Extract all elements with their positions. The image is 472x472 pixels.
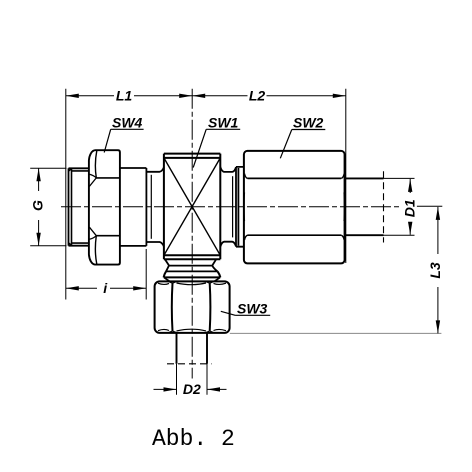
G extension lines	[30, 168, 66, 245]
L3 top extension line	[417, 205, 442, 207]
svg-text:Abb. 2: Abb. 2	[152, 426, 235, 452]
D2 extension lines	[177, 364, 208, 395]
horizontal center line (stud/tube axis)	[61, 206, 401, 208]
dimension L3	[436, 207, 440, 334]
label SW1 leader	[193, 129, 240, 167]
svg-text:SW4: SW4	[112, 114, 143, 130]
vertical center line (fitting axis)	[191, 89, 193, 379]
right neck valley and cone ridge	[220, 167, 244, 247]
svg-text:D1: D1	[401, 199, 417, 217]
left neck valley	[146, 167, 164, 246]
dimension L1	[66, 94, 192, 98]
extension line right of SW2 (L2)	[345, 89, 347, 263]
svg-text:L3: L3	[427, 262, 443, 279]
hex nut SW3	[155, 281, 230, 333]
svg-text:SW2: SW2	[293, 115, 324, 131]
svg-text:D2: D2	[183, 381, 201, 397]
tube down (D2)	[177, 333, 208, 364]
svg-text:L1: L1	[116, 88, 133, 104]
dimension L2	[192, 94, 346, 98]
dimension D1	[408, 179, 412, 235]
label SW2 leader	[280, 130, 325, 159]
svg-text:G: G	[30, 200, 46, 211]
D1 extension lines	[384, 178, 415, 235]
hex nut SW4	[89, 150, 120, 264]
label SW3 leader	[221, 311, 270, 315]
svg-text:L2: L2	[249, 88, 266, 104]
tube break line bottom	[167, 363, 212, 365]
threaded stud (G thread)	[69, 168, 89, 245]
svg-text:SW1: SW1	[208, 114, 239, 130]
bottom taper below body	[164, 259, 221, 281]
dimension G	[36, 168, 40, 245]
extension line left (L1 / i)	[65, 89, 67, 300]
dimension i	[66, 286, 146, 290]
svg-text:SW3: SW3	[237, 300, 268, 316]
tube right (D1)	[345, 178, 384, 235]
body block SW1	[164, 154, 220, 260]
dimension D2	[154, 387, 227, 391]
tube break line	[383, 171, 385, 242]
L3 bottom extension line (gray)	[230, 332, 442, 334]
union nut SW2	[244, 151, 345, 264]
label SW4 leader	[104, 129, 143, 152]
extension line washer right (i)	[145, 249, 147, 300]
washer cylinder	[120, 168, 146, 246]
